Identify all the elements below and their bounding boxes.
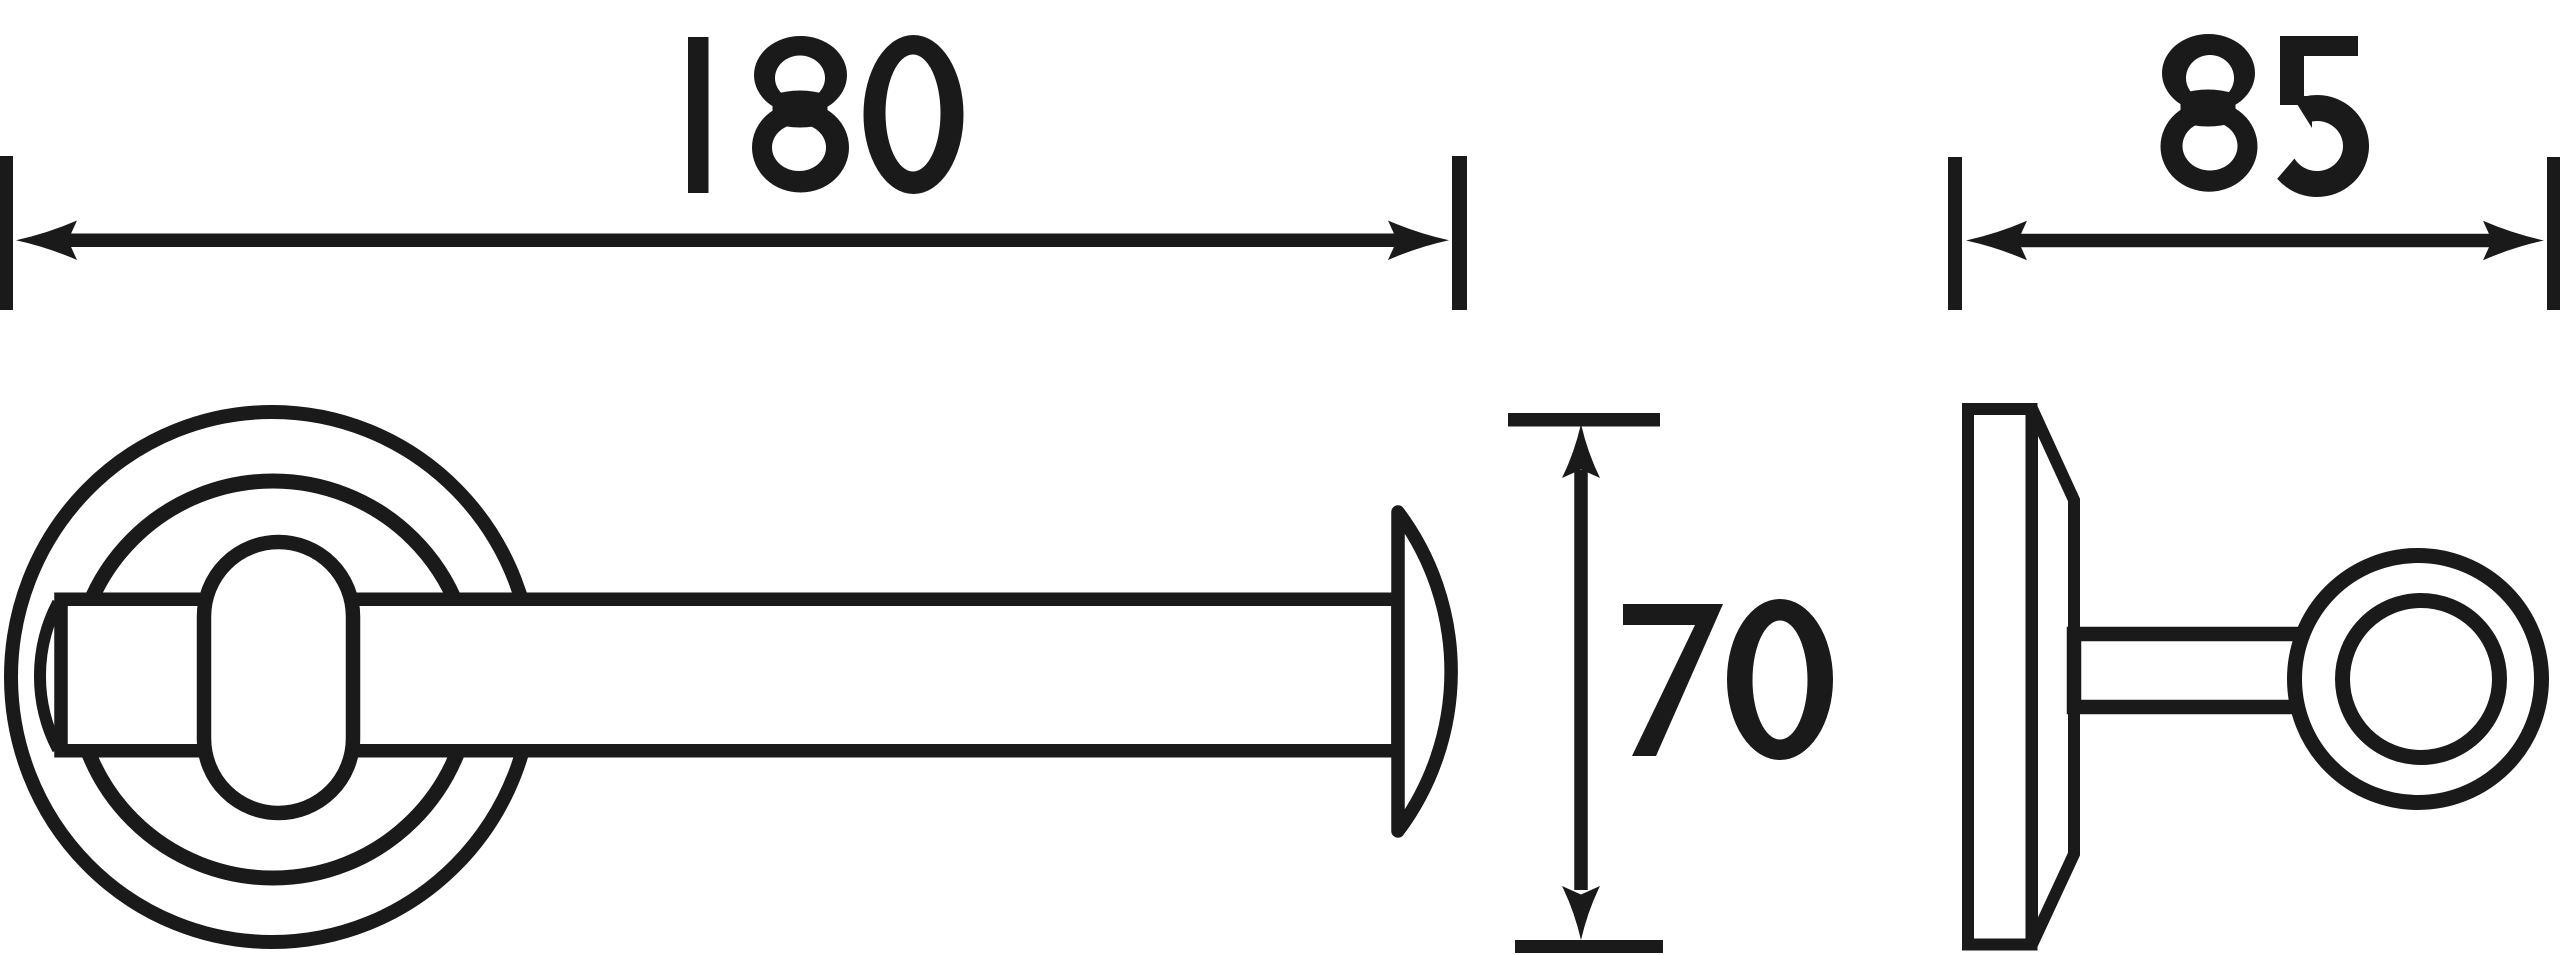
label 180 digit 8 <box>752 36 849 193</box>
rose frustum (tapered face) <box>2032 409 2074 945</box>
side bar <box>2074 634 2330 707</box>
ring outer circle <box>2295 556 2542 803</box>
dim 85 left tick <box>1948 157 1962 310</box>
label 70 digit 7 <box>1623 604 1723 756</box>
dim 85 arrow line <box>2010 234 2500 248</box>
wall rose outer circle <box>11 412 533 942</box>
right end cap lens <box>1398 512 1451 831</box>
dim 180 right tick <box>1452 156 1467 310</box>
dim 180 right arrowhead <box>1388 221 1449 261</box>
wall rose inner circle <box>75 481 472 878</box>
roll bar (horizontal spindle) <box>61 599 1398 751</box>
dim 180 left arrowhead <box>16 221 77 261</box>
dim 180 arrow line <box>60 234 1405 248</box>
dim 70 bottom arrowhead <box>1562 886 1600 940</box>
ring inner circle <box>2343 601 2500 758</box>
label 180 digit 1 <box>688 37 709 193</box>
centre post capsule <box>204 542 353 813</box>
dim 70 top arrowhead <box>1562 424 1600 478</box>
dim 85 right tick <box>2547 157 2560 310</box>
spindle dome arc (left end cap behind bar) <box>40 603 58 750</box>
dim 85 right arrowhead <box>2483 221 2544 260</box>
label 70 digit 0 <box>1727 599 1833 760</box>
dim 85 left arrowhead <box>1966 221 2027 260</box>
label 85 digit 5 <box>2277 36 2369 197</box>
dim 180 left tick <box>0 156 13 310</box>
dim 70 vertical line <box>1574 470 1588 890</box>
label 180 digit 0 <box>864 35 964 194</box>
wall plate <box>1968 409 2032 945</box>
label 85 digit 8 <box>2161 34 2258 192</box>
dim 70 bottom tick <box>1515 940 1663 953</box>
dim 70 top tick <box>1508 413 1660 427</box>
